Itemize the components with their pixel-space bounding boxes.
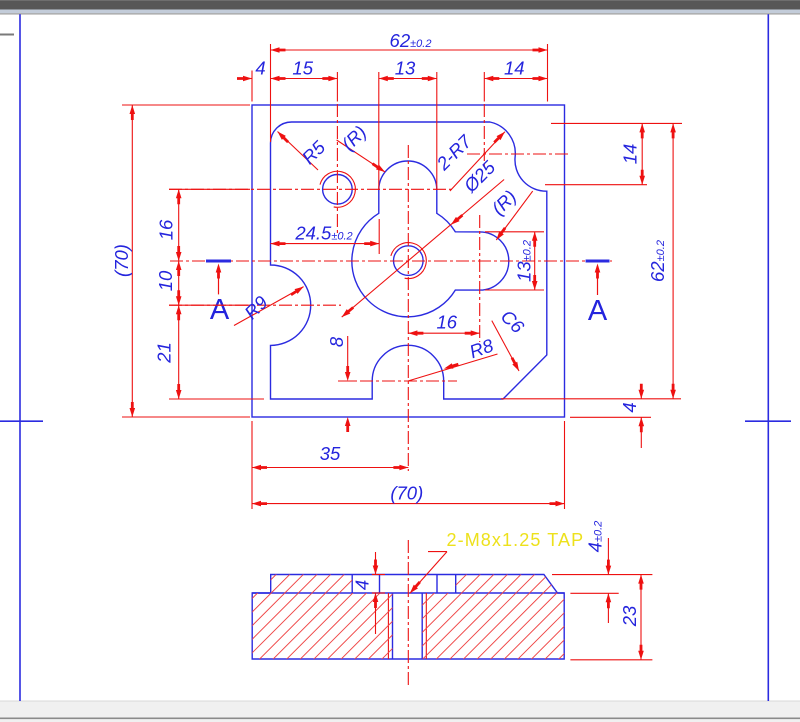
inner profile (62x62 pocket boundary) [271, 122, 547, 399]
leader R5 [276, 130, 330, 170]
dimension 16 bottom [408, 312, 479, 337]
leader phi25 [449, 156, 500, 227]
leader (R) top slot [337, 121, 387, 174]
clover pocket (phi25 with slots) [352, 161, 509, 317]
svg-text:14: 14 [504, 58, 525, 79]
centerline hole 1 vertical [336, 104, 338, 233]
left paper frame line [19, 14, 21, 701]
tapped hole 1 thread arc [320, 171, 355, 207]
label A left [210, 294, 230, 326]
leader 2-R7 [432, 130, 507, 191]
left ruler tick [0, 34, 14, 36]
svg-text:4: 4 [619, 402, 640, 412]
tapped hole 2 thread arc [391, 243, 426, 279]
dimension 35 [252, 443, 408, 470]
svg-text:(70): (70) [390, 483, 423, 504]
dimension 62±0.2 top [271, 30, 548, 53]
svg-text:A: A [588, 295, 608, 327]
section hatching [0, 565, 800, 665]
section pocket edge slot-right [436, 575, 438, 594]
dimension 14 right [620, 123, 646, 184]
section outer outline [252, 575, 564, 660]
dimension 8 [326, 336, 357, 432]
diameter leader line through center [342, 180, 504, 318]
tapped hole 2 drill circle [394, 246, 424, 276]
dimension 13 top [379, 58, 437, 82]
section centerline [407, 540, 409, 685]
centerline bottom notch horizontal [338, 380, 457, 382]
section thread line right [425, 593, 427, 659]
svg-text:16: 16 [437, 312, 458, 333]
section ext lines right [552, 575, 652, 660]
svg-text:14: 14 [620, 144, 641, 165]
leader R9 [234, 284, 305, 325]
section tap hole right edge [421, 593, 423, 659]
svg-text:13: 13 [395, 58, 416, 79]
svg-text:8: 8 [326, 336, 347, 347]
svg-text:4: 4 [255, 58, 265, 79]
section arrow left [216, 264, 222, 295]
dimension 14 top [484, 58, 547, 82]
label A right [588, 295, 608, 327]
section line segment left [206, 260, 231, 263]
leader R8 [408, 334, 498, 381]
svg-text:(70): (70) [111, 244, 132, 277]
dimension 4 top [237, 58, 266, 82]
svg-text:35: 35 [320, 443, 341, 464]
dimension 13±0.2 right lobe [485, 232, 544, 290]
section line segment right [586, 260, 610, 263]
ext lines right dims [501, 123, 682, 417]
left frame tick [0, 420, 43, 422]
dimension 24.5±0.2 [271, 219, 380, 254]
svg-text:10: 10 [155, 270, 176, 291]
section pocket edge slot-left [379, 575, 381, 594]
application top bar [0, 0, 800, 15]
svg-text:16: 16 [156, 219, 177, 240]
svg-text:21: 21 [154, 342, 175, 364]
section pocket edge left [351, 575, 353, 594]
section dim 4 boss height [352, 552, 386, 634]
section thread line left [387, 593, 389, 659]
centerline notch R7 horizontal [467, 153, 568, 155]
section dim 23 [619, 575, 644, 660]
dimension (70) bottom [252, 483, 565, 507]
svg-text:15: 15 [292, 58, 313, 79]
dimension 62±0.2 right [647, 123, 676, 398]
centerline hole 1 horizontal [169, 188, 455, 190]
right paper frame line [767, 14, 769, 701]
ext lines left dims [122, 105, 264, 417]
leader (R) right lobe [487, 186, 532, 242]
dimension 16 left [156, 189, 182, 261]
svg-text:4: 4 [352, 580, 373, 590]
horizontal centerline of part [170, 260, 612, 262]
section step line [252, 592, 564, 594]
tap callout 2-M8x1.25 TAP [408, 530, 584, 595]
right frame tick [745, 420, 791, 422]
dimension 15 top [271, 58, 338, 82]
svg-text:23: 23 [619, 605, 640, 627]
section pocket edge right [455, 575, 457, 594]
dimension 21 left [154, 305, 182, 399]
diagonal lower arrow [340, 305, 355, 319]
application bottom status bar [0, 701, 800, 722]
vertical centerline of part [407, 145, 409, 471]
outer square 70x70 outline [252, 105, 565, 417]
centerline notch R7 vertical [483, 104, 485, 167]
ext lines bottom dims [252, 421, 565, 509]
dimension 4 bottom right [619, 384, 644, 448]
section arrow right [595, 264, 601, 296]
centerline right lobe vertical [479, 215, 481, 342]
ext lines top dims [252, 44, 548, 190]
section tap hole left edge [392, 593, 394, 659]
centerline R9 notch [169, 304, 341, 306]
section dim 4±0.2 [585, 521, 612, 623]
leader C6 [492, 306, 529, 373]
svg-text:2-M8x1.25 TAP: 2-M8x1.25 TAP [447, 530, 585, 550]
svg-text:A: A [210, 294, 230, 326]
dimension 10 left [155, 261, 182, 305]
tapped hole 1 drill circle [323, 175, 353, 205]
dimension (70) left [111, 105, 135, 417]
